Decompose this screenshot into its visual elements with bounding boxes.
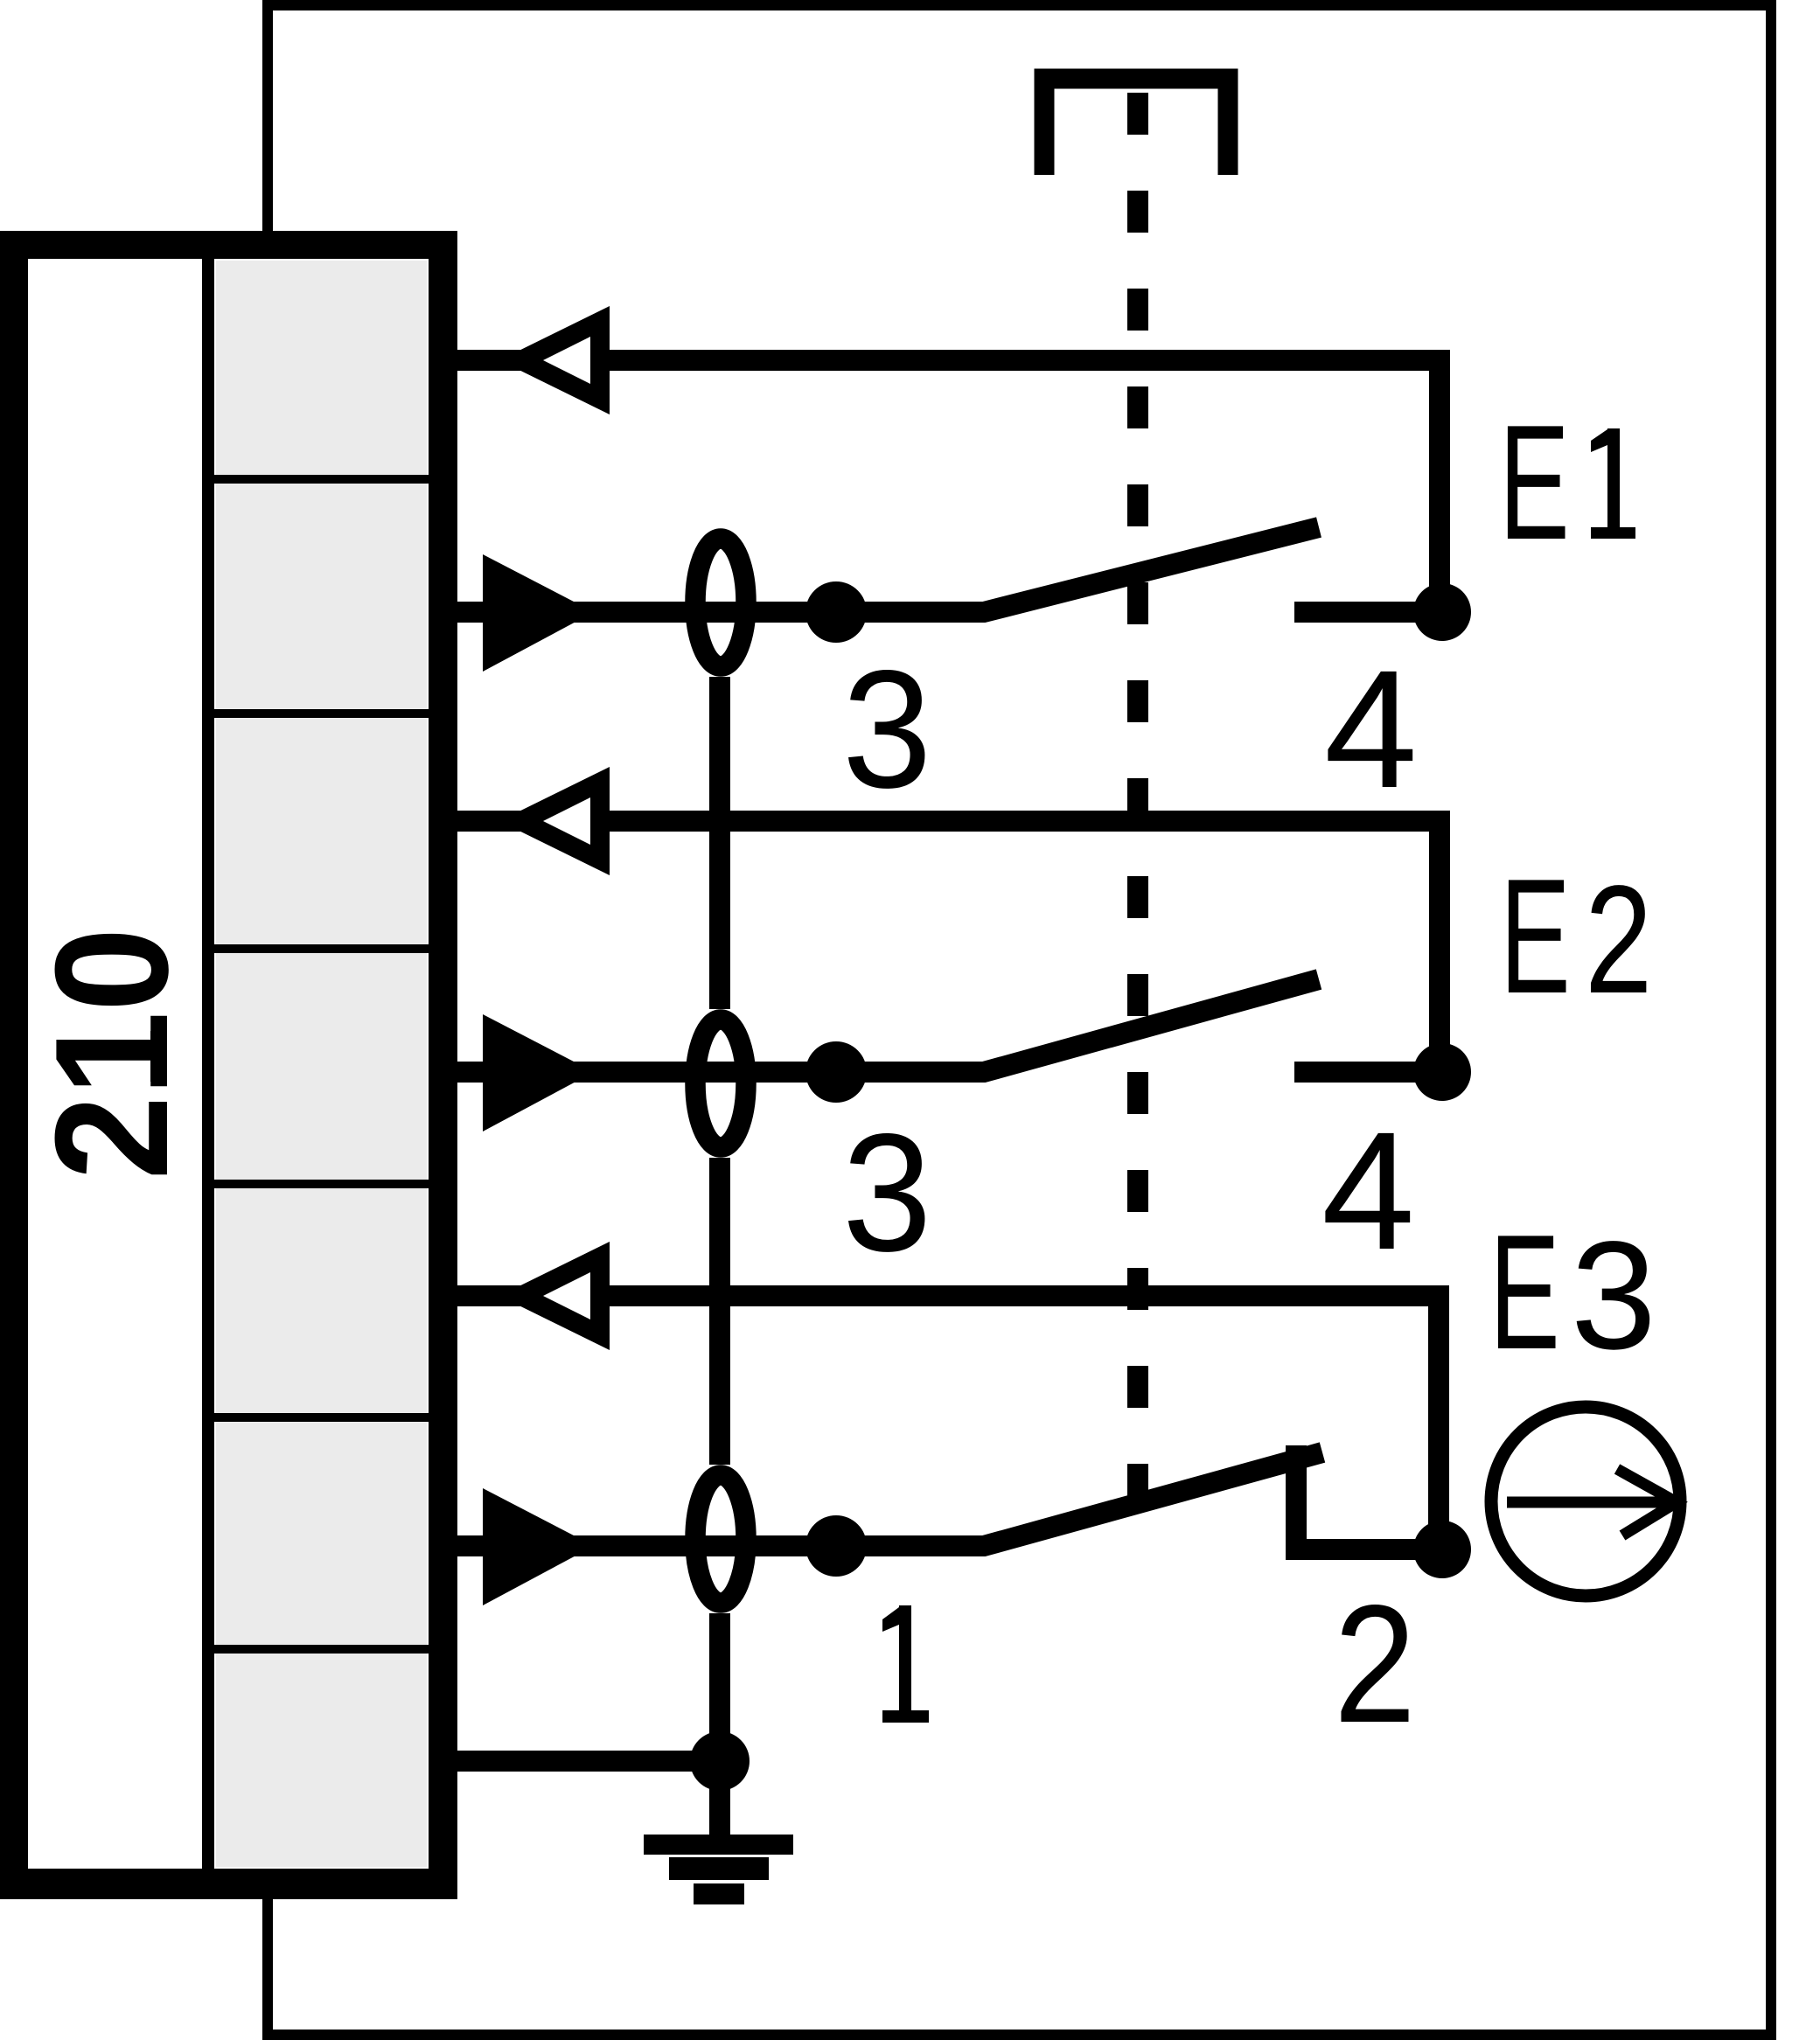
terminal strip background	[216, 261, 427, 1867]
module 210 body	[0, 231, 457, 1899]
earth ground bar 1	[644, 1835, 793, 1855]
earth ground bar 3	[694, 1883, 744, 1904]
output arrow row1	[499, 306, 610, 414]
module inner separator	[202, 259, 214, 1869]
svg-text:E: E	[1500, 845, 1571, 1027]
label E1 digit 1 flag	[1591, 429, 1607, 452]
earth ground bar 2	[669, 1857, 769, 1880]
svg-text:4: 4	[1324, 635, 1418, 823]
switch E2 blade	[836, 979, 1319, 1072]
wire row3 E2 feed with corner	[457, 821, 1440, 1072]
terminal separator 2	[214, 709, 429, 718]
ground bus vertical segment C	[709, 1613, 730, 1835]
switch E2 fixed contact	[1294, 1062, 1441, 1083]
node 2 dot E3	[1413, 1521, 1471, 1578]
actuator bracket	[1044, 79, 1228, 175]
svg-text:3: 3	[842, 636, 932, 823]
node 4 dot E1	[1413, 583, 1471, 641]
actuator arrow shaft	[1507, 1497, 1670, 1508]
terminal separator 4	[214, 1180, 429, 1188]
node 1 dot E3	[805, 1515, 867, 1577]
ground bus vertical segment B	[709, 1158, 730, 1465]
terminal separator 6	[214, 1645, 429, 1654]
ferrite ellipse E1	[695, 539, 746, 666]
switch E3 blade	[836, 1452, 1322, 1546]
wire row2 E1 input	[457, 602, 836, 623]
node 4 dot E2	[1413, 1043, 1471, 1101]
input arrow row6	[483, 1488, 594, 1605]
wire row4 E2 input	[457, 1062, 836, 1083]
mechanical linkage dashed line	[1127, 93, 1148, 1510]
module 210 inner area	[28, 259, 429, 1869]
svg-text:2: 2	[1334, 1570, 1416, 1758]
switch E1 blade	[836, 527, 1319, 612]
svg-text:2: 2	[1585, 853, 1652, 1026]
output arrow row3	[499, 767, 610, 875]
label 210 digit 1 foot serif	[150, 1031, 167, 1082]
ground bus vertical segment A	[709, 677, 730, 1009]
wire row5 E3 feed with corner	[457, 1296, 1439, 1549]
switch E3 fixed contact L	[1296, 1445, 1441, 1549]
svg-text:4: 4	[1321, 1097, 1415, 1285]
ferrite ellipse E3	[695, 1475, 746, 1603]
input arrow row4	[483, 1014, 594, 1131]
ground bus junction dot	[690, 1731, 750, 1791]
label 1 of E3 stem	[899, 1605, 911, 1712]
svg-text:E: E	[1499, 391, 1570, 574]
terminal separator 1	[214, 475, 429, 484]
label E1 digit 1 stem	[1607, 428, 1620, 527]
terminal separator 5	[214, 1413, 429, 1422]
wire row1 E1 feed with corner	[457, 360, 1440, 612]
actuator circle E3	[1491, 1407, 1680, 1596]
label E1 digit 1 foot	[1591, 527, 1635, 539]
label 1 of E3 flag	[882, 1607, 899, 1632]
output arrow row5	[499, 1242, 610, 1350]
input arrow row2	[483, 554, 594, 672]
node 3 dot E2	[805, 1041, 867, 1103]
terminal separator 3	[214, 944, 429, 953]
svg-text:210: 210	[21, 928, 201, 1180]
wire row7 ground	[457, 1751, 720, 1772]
svg-text:E: E	[1489, 1201, 1560, 1383]
wire row6 E3 input	[457, 1535, 836, 1556]
actuator arrow head	[1617, 1469, 1677, 1535]
node 3 dot E1	[805, 581, 867, 643]
switch E1 fixed contact	[1294, 602, 1441, 623]
label 1 of E3 foot	[882, 1710, 929, 1723]
ferrite ellipse E2	[695, 1020, 746, 1147]
svg-text:3: 3	[1571, 1210, 1656, 1382]
svg-text:3: 3	[842, 1099, 932, 1286]
